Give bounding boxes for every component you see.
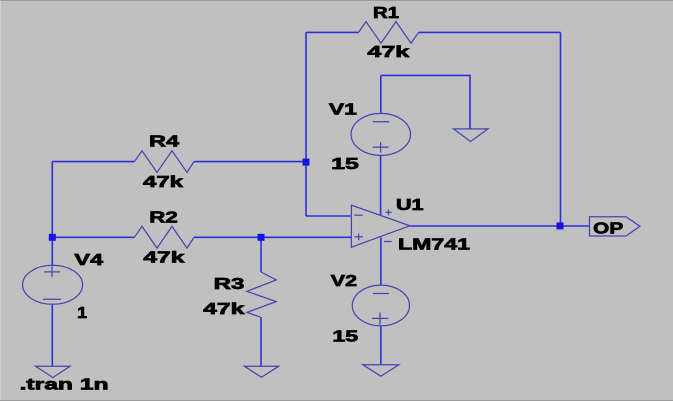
- voltage source V4 circle: [23, 265, 83, 304]
- wire op-amp V- pin to V2: [380, 238, 382, 285]
- wire V2 bottom to ground: [380, 326, 382, 365]
- resistor R2: [134, 226, 194, 248]
- svg-text:47k: 47k: [367, 44, 409, 61]
- svg-text:15: 15: [332, 329, 358, 346]
- wire V1 top lead: [380, 75, 382, 113]
- resistor R4: [134, 151, 194, 173]
- svg-text:47k: 47k: [143, 174, 183, 191]
- wire op-amp output: [410, 225, 590, 227]
- node junction at output: [557, 222, 564, 229]
- V2 minus marker: [373, 293, 389, 295]
- wire R1 left lead: [306, 31, 359, 33]
- wire corner to op-amp inverting input: [306, 215, 351, 217]
- wire vertical right from R1 to output node: [560, 32, 562, 226]
- op-amp inverting input marker: [354, 214, 362, 216]
- svg-text:1: 1: [77, 305, 87, 322]
- svg-text:R2: R2: [149, 210, 178, 227]
- op-amp V+ pin marker: [385, 210, 391, 216]
- wire V1 bottom to op-amp V+ pin: [380, 155, 382, 215]
- svg-text:R3: R3: [214, 276, 245, 293]
- wire V4 bottom lead to ground: [51, 305, 53, 366]
- wire R4 left lead: [52, 161, 134, 163]
- svg-text:V1: V1: [329, 102, 357, 119]
- op-amp V- pin marker: [384, 241, 392, 243]
- node junction at V4/R2/R4: [49, 234, 56, 241]
- V1 minus marker: [373, 121, 390, 123]
- svg-text:47k: 47k: [143, 250, 184, 267]
- svg-text:15: 15: [331, 156, 359, 173]
- wire R2 right lead to op-amp noninverting input: [194, 236, 351, 238]
- op-amp noninverting input marker: [354, 234, 363, 241]
- svg-text:.tran 1n: .tran 1n: [20, 377, 109, 394]
- svg-text:R4: R4: [149, 134, 179, 151]
- V1 plus marker: [373, 142, 389, 152]
- wire R3 top lead: [260, 237, 262, 272]
- ground at V1: [454, 129, 488, 142]
- voltage source V2 circle: [352, 285, 409, 326]
- svg-text:OP: OP: [593, 221, 623, 238]
- V4 minus marker: [43, 298, 61, 300]
- ground at V4: [36, 366, 70, 377]
- wire R2 left lead: [52, 236, 134, 238]
- resistor R1: [359, 22, 419, 44]
- ground at V2: [363, 365, 399, 376]
- wire left vertical V4 to R4: [51, 162, 53, 267]
- wire V1 top to ground: [381, 75, 470, 128]
- V2 plus marker: [372, 313, 388, 325]
- svg-text:U1: U1: [396, 197, 424, 214]
- ground at R3: [244, 366, 278, 377]
- voltage source V1 circle: [351, 113, 410, 155]
- resistor R3: [247, 272, 276, 317]
- svg-text:V2: V2: [331, 273, 357, 290]
- svg-text:LM741: LM741: [398, 237, 470, 254]
- port flag OP: [590, 217, 641, 236]
- wire R3 bottom lead to ground: [260, 317, 262, 366]
- node junction at R4/inverting net: [303, 159, 310, 166]
- node junction at R2/R3: [258, 234, 265, 241]
- wire vertical left from R1 down to inverting input row: [305, 32, 307, 216]
- svg-text:V4: V4: [74, 252, 103, 269]
- V4 plus marker: [44, 267, 60, 277]
- wire R4 right lead to junction: [194, 161, 306, 163]
- op-amp U1 triangle: [351, 205, 409, 247]
- wire R1 right lead: [419, 31, 561, 33]
- svg-text:R1: R1: [373, 5, 399, 22]
- svg-text:47k: 47k: [203, 301, 244, 318]
